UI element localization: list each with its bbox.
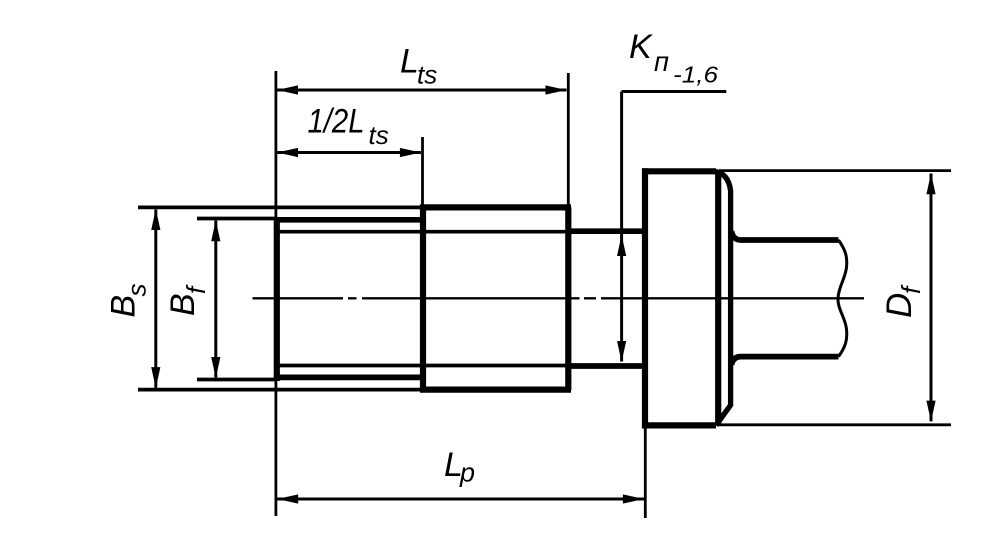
- extension line at mid-thread (right end of 1/2Lts): [421, 137, 424, 207]
- svg-text:K: K: [629, 28, 653, 66]
- arrowheads of Lts dimension: [277, 85, 567, 94]
- dimension line Bf: [214, 221, 217, 378]
- extension line below flange left face (right end of Lp): [644, 429, 647, 519]
- extension line Bf top: [197, 217, 277, 221]
- extension line Bs top (smooth collar top outline extended left): [138, 206, 424, 210]
- label Bs (rotated): [105, 284, 152, 318]
- shaft break wavy line: [838, 240, 847, 357]
- thread root line bottom: [279, 364, 568, 368]
- svg-text:-1,6: -1,6: [673, 62, 718, 88]
- svg-text:B: B: [164, 293, 202, 316]
- label Df (rotated): [880, 284, 926, 318]
- extension line at collar right edge (right end of Lts): [567, 73, 570, 207]
- flange rear face: [715, 171, 721, 425]
- extension line Df top: [719, 169, 951, 172]
- threaded shank left end face: [274, 217, 280, 381]
- dimension line Lts: [277, 89, 567, 92]
- label Bf (rotated): [164, 284, 211, 316]
- dimension line and leader for Kn (neck diameter): [622, 92, 727, 362]
- extension line Bf bottom: [197, 378, 277, 382]
- dimension line Bs: [154, 210, 157, 388]
- center axis dash-dot line: [253, 297, 865, 299]
- extension line Df bottom: [719, 423, 951, 426]
- shaft bottom outline with fillet: [732, 357, 839, 365]
- flange left face: [642, 168, 648, 428]
- extension line Bs bottom: [138, 388, 424, 392]
- label Kn -1,6: [629, 28, 718, 87]
- shaft top outline with fillet: [732, 231, 839, 240]
- arrowheads of Bf dimension: [211, 220, 220, 378]
- svg-text:ts: ts: [417, 60, 437, 90]
- collar right edge: [565, 207, 571, 390]
- neck bottom outline: [568, 363, 645, 369]
- label Lp: [444, 446, 475, 488]
- arrowheads of Bs dimension: [151, 209, 160, 388]
- svg-text:B: B: [105, 295, 143, 318]
- flange rear chamfer outline: [713, 171, 731, 425]
- svg-text:1/2L: 1/2L: [308, 102, 365, 140]
- flange bottom outline: [642, 422, 716, 428]
- label Lts: [400, 43, 437, 90]
- extension line at plug left end (for Lts, 1/2Lts, Lp): [274, 71, 277, 516]
- arrowheads of Kn neck dimension: [617, 235, 626, 362]
- dimension line Df: [930, 174, 933, 422]
- svg-text:s: s: [122, 284, 152, 297]
- svg-text:D: D: [880, 293, 919, 318]
- thread root line top: [279, 230, 568, 234]
- dimension line 1/2Lts: [277, 151, 421, 154]
- dimension line Lp: [277, 498, 644, 501]
- neck top outline: [568, 228, 645, 234]
- thread crest line bottom: [274, 375, 425, 381]
- collar left edge: [420, 207, 426, 390]
- collar top outline: [420, 204, 571, 210]
- collar bottom outline: [420, 387, 571, 393]
- svg-text:p: p: [459, 458, 475, 488]
- arrowheads of Lp dimension: [277, 494, 644, 503]
- arrowheads of Df dimension: [926, 173, 935, 421]
- label 1/2Lts: [308, 102, 389, 150]
- arrowheads of 1/2Lts dimension: [277, 148, 421, 157]
- flange top outline: [642, 168, 716, 174]
- thread crest line top: [274, 217, 425, 223]
- svg-text:ts: ts: [369, 120, 389, 150]
- svg-text:п: п: [654, 46, 669, 77]
